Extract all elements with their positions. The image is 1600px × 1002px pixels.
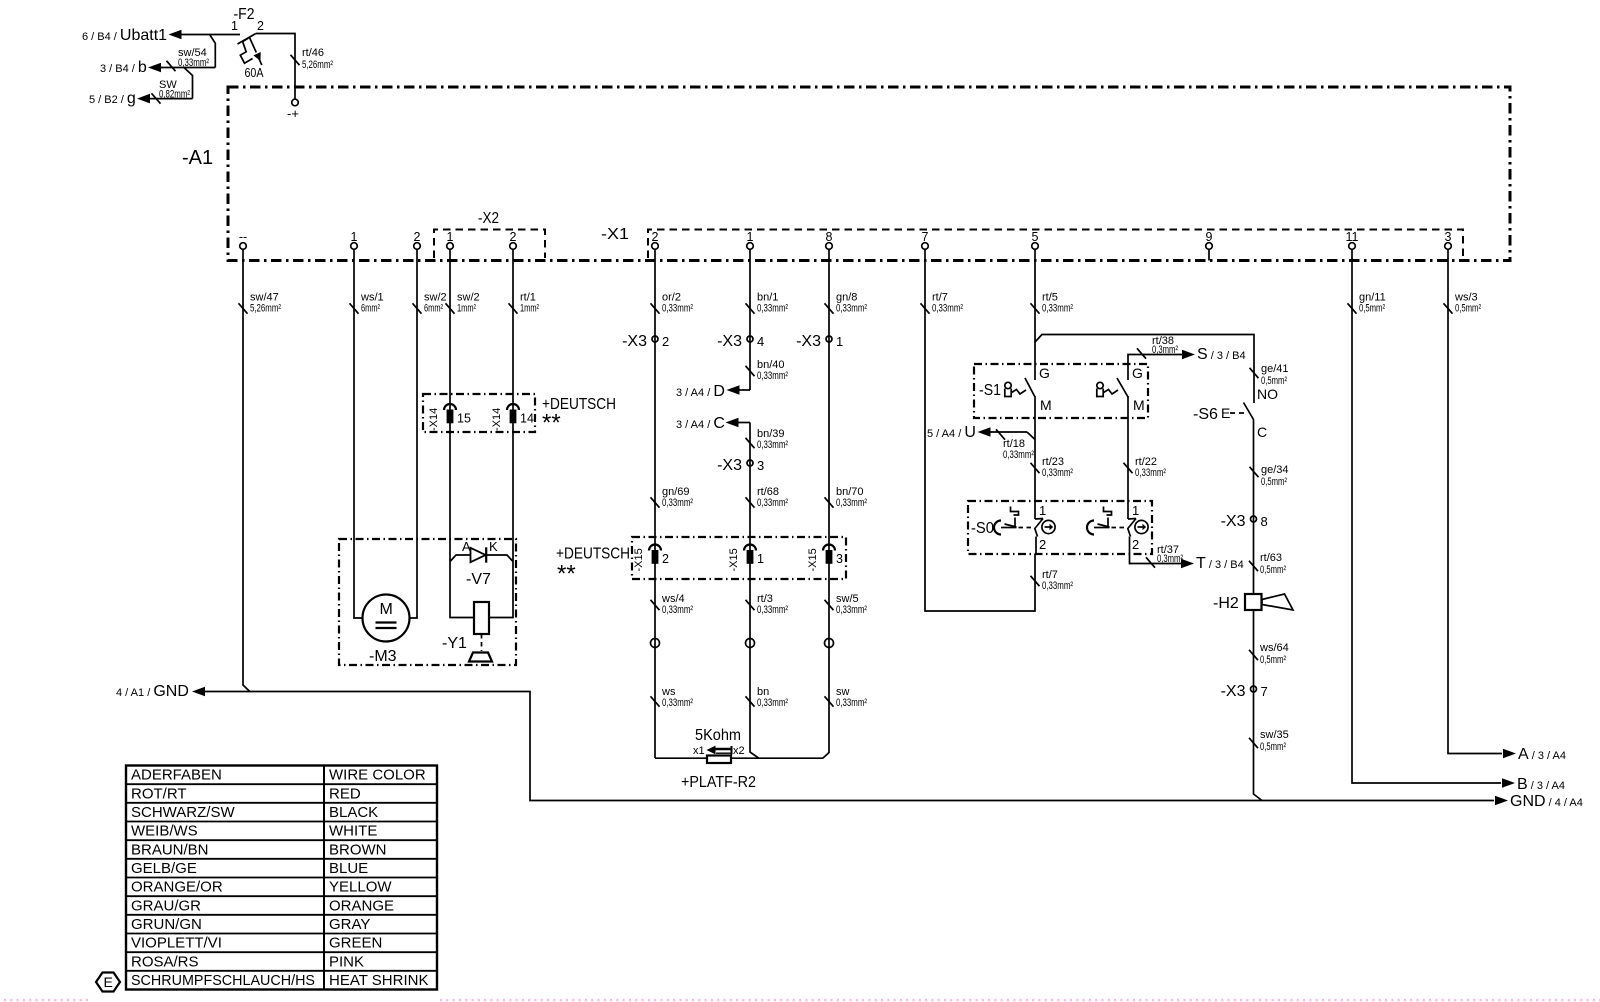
ECU label -A1: [182, 147, 213, 169]
svg-text:-V7: -V7: [466, 571, 491, 588]
svg-text:-Y1: -Y1: [442, 635, 467, 652]
connector pin 7: [922, 230, 929, 261]
connector pin 11: [1346, 230, 1359, 261]
svg-text:BLUE: BLUE: [329, 860, 368, 877]
svg-text:-A1: -A1: [182, 147, 213, 169]
node GND out-arrow 4/A1: [116, 683, 205, 700]
wire sw/2 X2:1 to Y1: [450, 261, 474, 618]
wire bn/1 X1:1 to D-arrow: [749, 261, 751, 391]
wire resistor left lead: [655, 757, 707, 759]
svg-text:E: E: [104, 974, 113, 990]
S0 sensor contact 2: [1087, 503, 1148, 552]
S0 sensor contact 1: [994, 503, 1055, 552]
svg-text:0,33mm²: 0,33mm²: [757, 303, 788, 315]
svg-text:11: 11: [1346, 230, 1359, 244]
svg-text:A: A: [462, 539, 471, 554]
svg-text:C: C: [1257, 424, 1267, 440]
wire label bn70: [825, 486, 868, 509]
svg-text:-H2: -H2: [1213, 595, 1239, 612]
svg-text:WHITE: WHITE: [329, 823, 377, 840]
splice on bn wire: [746, 639, 755, 648]
svg-text:4: 4: [757, 334, 764, 349]
svg-text:14: 14: [520, 412, 534, 426]
wire label ws3: [1444, 292, 1482, 315]
svg-text:0,5mm²: 0,5mm²: [1359, 303, 1385, 315]
resistor R2 5Kohm: [693, 727, 745, 763]
svg-text:K: K: [489, 539, 498, 554]
wire sw/2 pin2 to motor: [410, 261, 418, 619]
splice on sw wire: [825, 639, 834, 648]
svg-text:-X14: -X14: [428, 408, 440, 431]
svg-text:-M3: -M3: [369, 648, 397, 665]
svg-text:ADERFABEN: ADERFABEN: [131, 767, 222, 784]
terminal -+ on A1: [287, 99, 299, 121]
svg-text:5,26mm²: 5,26mm²: [250, 303, 281, 315]
svg-text:-X14: -X14: [491, 408, 503, 431]
connector -X3 pin 1: [796, 333, 843, 350]
wire label sw35: [1249, 729, 1289, 753]
svg-text:1mm²: 1mm²: [520, 303, 539, 315]
svg-text:VIOPLETT/VI: VIOPLETT/VI: [131, 935, 222, 952]
wire S0 contact2 pin2 to T-arrow: [1130, 537, 1182, 564]
node GND out-arrow 4/A4: [1495, 793, 1583, 810]
svg-text:0,33mm²: 0,33mm²: [757, 497, 788, 509]
svg-text:1mm²: 1mm²: [457, 303, 476, 315]
wire label rt37: [1146, 544, 1183, 568]
svg-text:**: **: [557, 561, 576, 588]
svg-text:GREEN: GREEN: [329, 935, 382, 952]
wire Ubatt1-to-b zigzag: [210, 35, 216, 68]
wire label sw2a: [413, 292, 447, 315]
wire label gn8: [825, 292, 868, 315]
wire label SW: [152, 79, 191, 104]
svg-text:1: 1: [836, 334, 843, 349]
connector pin 1: [447, 230, 454, 261]
box M3/Y1 dash-dot: [339, 539, 516, 665]
connector X1 dashed box: [601, 226, 1463, 258]
wire label rt18: [996, 429, 1034, 461]
location label +DEUTSCH (X15): [556, 546, 630, 588]
svg-text:+PLATF-R2: +PLATF-R2: [681, 774, 756, 791]
connector pin 2: [414, 230, 421, 261]
connector X15 dash-dot box: [632, 537, 846, 579]
svg-text:ge/41: ge/41: [1261, 363, 1289, 375]
solenoid Y1: [442, 602, 492, 662]
svg-text:60A: 60A: [245, 66, 265, 80]
wire S1 contact2 M down: [1127, 396, 1129, 519]
wire label rt7a: [921, 292, 964, 315]
svg-text:ROSA/RS: ROSA/RS: [131, 953, 199, 970]
svg-text:0,82mm²: 0,82mm²: [159, 89, 190, 101]
svg-text:7: 7: [1261, 684, 1268, 699]
svg-text:G: G: [1039, 365, 1050, 381]
wire label ge41: [1250, 363, 1289, 387]
wire rt/1 X2:2 to Y1: [489, 261, 513, 618]
svg-text:-X3: -X3: [1221, 683, 1246, 700]
svg-text:0,33mm²: 0,33mm²: [1042, 580, 1073, 592]
svg-text:7: 7: [922, 230, 929, 244]
svg-text:M: M: [380, 601, 393, 618]
horn H2: [1213, 594, 1293, 612]
connector -X3 pin 2: [622, 333, 669, 350]
svg-text:GRUN/GN: GRUN/GN: [131, 916, 202, 933]
wire S1 contact2 G up to S-arrow: [1128, 355, 1182, 381]
svg-text:0,5mm²: 0,5mm²: [1455, 303, 1481, 315]
svg-text:0,33mm²: 0,33mm²: [662, 604, 693, 616]
wire color legend table: [126, 766, 437, 990]
svg-text:sw/35: sw/35: [1260, 729, 1289, 741]
svg-text:YELLOW: YELLOW: [329, 879, 392, 896]
svg-text:-S0: -S0: [971, 520, 994, 537]
fuse F2 breaker symbol 60A: [238, 34, 265, 81]
svg-text:M: M: [1133, 397, 1145, 413]
svg-text:-X15: -X15: [728, 548, 740, 571]
connector pin 9: [1206, 230, 1213, 261]
svg-text:0,5mm²: 0,5mm²: [1260, 564, 1286, 576]
svg-text:-S6: -S6: [1193, 406, 1218, 423]
connector pin 8: [826, 230, 833, 261]
svg-text:0,33mm²: 0,33mm²: [836, 497, 867, 509]
location label +PLATF-R2: [681, 774, 756, 791]
svg-text:1: 1: [351, 230, 358, 244]
svg-text:SCHRUMPFSCHLAUCH/HS: SCHRUMPFSCHLAUCH/HS: [131, 972, 315, 989]
wire label ge34: [1250, 464, 1289, 488]
svg-text:2: 2: [1039, 537, 1046, 552]
connector X14 dash-dot box: [423, 394, 535, 432]
svg-text:BRAUN/BN: BRAUN/BN: [131, 841, 209, 858]
svg-text:0,3mm²: 0,3mm²: [1157, 553, 1183, 565]
node b out-arrow 3/B4: [100, 59, 215, 76]
svg-text:3: 3: [836, 552, 843, 566]
svg-text:ROT/RT: ROT/RT: [131, 785, 187, 802]
connector -X3 pin 8: [1221, 513, 1268, 530]
svg-text:6mm²: 6mm²: [361, 303, 380, 315]
svg-text:M: M: [1040, 397, 1052, 413]
svg-text:BLACK: BLACK: [329, 804, 378, 821]
splice on ws wire: [651, 639, 660, 648]
svg-text:-X3: -X3: [717, 457, 742, 474]
svg-text:WEIB/WS: WEIB/WS: [131, 823, 198, 840]
S1 key contact 1: [1005, 365, 1052, 413]
wire label rt7b: [1031, 569, 1074, 592]
svg-text:5: 5: [1032, 230, 1039, 244]
wire ws/3 X1:3 to A-arrow: [1448, 261, 1502, 754]
sheet border pink dotted: [4, 999, 1600, 1001]
wire label rt23: [1031, 456, 1074, 479]
svg-text:GELB/GE: GELB/GE: [131, 860, 197, 877]
fuse F2 label: [231, 6, 264, 33]
svg-text:-X3: -X3: [717, 333, 742, 350]
wire label rt5: [1031, 292, 1074, 315]
svg-text:0,33mm²: 0,33mm²: [1135, 467, 1166, 479]
wire rt/7 X1:7 loop to S0: [925, 261, 1035, 612]
svg-text:1: 1: [447, 230, 454, 244]
wire b-to-g zigzag: [184, 68, 193, 99]
wire fuse pin2 to -+ terminal: [256, 34, 295, 100]
svg-text:-X2: -X2: [478, 210, 499, 227]
svg-text:0,33mm²: 0,33mm²: [757, 697, 788, 709]
connector pin 5: [1032, 230, 1039, 261]
connector pin --: [239, 230, 247, 261]
svg-text:15: 15: [457, 412, 471, 426]
wire label ws4: [651, 593, 694, 616]
svg-text:0,33mm²: 0,33mm²: [932, 303, 963, 315]
svg-text:1: 1: [231, 19, 238, 33]
svg-text:3: 3: [1445, 230, 1452, 244]
connector -X3 pin 4: [717, 333, 764, 350]
svg-text:x1: x1: [693, 745, 705, 757]
wire label bn: [746, 686, 789, 709]
wire label rt68: [746, 486, 789, 509]
connector pin 1: [747, 230, 754, 261]
wire label bn1: [746, 292, 789, 315]
svg-text:2: 2: [662, 552, 669, 566]
wire label bn39: [746, 428, 789, 451]
svg-text:2: 2: [414, 230, 421, 244]
svg-text:2: 2: [1132, 537, 1139, 552]
svg-text:G: G: [1132, 365, 1143, 381]
svg-text:1: 1: [1039, 503, 1046, 518]
svg-text:0,33mm²: 0,33mm²: [1003, 449, 1034, 461]
S1 key contact 2: [1097, 365, 1145, 413]
svg-text:0,33mm²: 0,33mm²: [1042, 303, 1073, 315]
wire label gn11: [1348, 292, 1386, 315]
ECU box A1 border: [228, 87, 1510, 261]
node B out-arrow 3/A4: [1502, 776, 1565, 793]
svg-text:-X1: -X1: [601, 226, 629, 243]
wire label rt63: [1249, 552, 1286, 576]
svg-text:ORANGE: ORANGE: [329, 897, 394, 914]
svg-text:-X15: -X15: [633, 548, 645, 571]
svg-text:0,33mm²: 0,33mm²: [1042, 467, 1073, 479]
wire label sw47: [239, 292, 282, 315]
svg-text:RED: RED: [329, 785, 361, 802]
wire label ws64: [1249, 642, 1289, 666]
svg-text:**: **: [542, 410, 561, 437]
wire resistor right lead: [731, 757, 823, 759]
node D out-arrow 3/A4: [676, 383, 750, 400]
svg-text:NO: NO: [1257, 386, 1278, 402]
svg-text:1: 1: [747, 230, 754, 244]
wire bn/39 C-arrow down to resistor: [750, 423, 759, 759]
svg-text:ge/34: ge/34: [1261, 464, 1289, 476]
svg-text:0,5mm²: 0,5mm²: [1260, 741, 1286, 753]
wire node branch to S6 column: [1035, 335, 1254, 404]
node U out-arrow 5/A4: [927, 424, 1035, 441]
svg-text:rt/63: rt/63: [1260, 552, 1282, 564]
node Ubatt1 out-arrow 6/B4: [82, 27, 240, 44]
wire label sw5: [825, 593, 868, 616]
connector contact -X15:1: [728, 545, 764, 572]
svg-text:-+: -+: [287, 106, 299, 121]
wire label rt3: [746, 593, 789, 616]
wire label sw/54: [167, 47, 210, 71]
connector -X3 pin 7: [1221, 683, 1268, 700]
wire label or2: [651, 292, 694, 315]
svg-text:1: 1: [757, 552, 764, 566]
wire or/2 X1:2 down: [654, 261, 656, 759]
connector contact -X14:15: [428, 404, 471, 431]
svg-text:9: 9: [1206, 230, 1213, 244]
svg-text:0,5mm²: 0,5mm²: [1260, 654, 1286, 666]
node T out-arrow 3/B4: [1181, 555, 1244, 572]
svg-text:-X3: -X3: [1221, 513, 1246, 530]
svg-text:ws/64: ws/64: [1259, 642, 1289, 654]
svg-text:WIRE COLOR: WIRE COLOR: [329, 767, 426, 784]
svg-text:0,33mm²: 0,33mm²: [757, 439, 788, 451]
connector contact -X15:3: [807, 545, 843, 572]
motor M3: [363, 595, 410, 666]
svg-text:rt/46: rt/46: [302, 47, 324, 59]
svg-text:x2: x2: [733, 745, 745, 757]
wire GND run left: [205, 692, 1494, 801]
svg-text:1: 1: [1132, 503, 1139, 518]
wire sw/47 pin-- to GND run: [243, 261, 250, 692]
svg-text:5Kohm: 5Kohm: [695, 727, 741, 744]
wire ws/1 pin1 to motor: [354, 261, 363, 619]
svg-text:SCHWARZ/SW: SCHWARZ/SW: [131, 804, 235, 821]
svg-text:0,33mm²: 0,33mm²: [662, 697, 693, 709]
svg-text:PINK: PINK: [329, 953, 364, 970]
wire label gn69: [651, 486, 694, 509]
wire label rt1: [509, 292, 540, 315]
svg-text:0,33mm²: 0,33mm²: [836, 604, 867, 616]
wire label rt38: [1137, 335, 1178, 359]
wire label ws: [651, 686, 694, 709]
wire label rt22: [1124, 456, 1167, 479]
svg-text:8: 8: [1261, 514, 1268, 529]
svg-text:0,33mm²: 0,33mm²: [662, 303, 693, 315]
connector pin 2: [510, 230, 517, 261]
location label +DEUTSCH (X14): [542, 396, 616, 437]
svg-text:2: 2: [257, 19, 264, 33]
svg-text:0,33mm²: 0,33mm²: [757, 604, 788, 616]
node g out-arrow 5/B2: [89, 90, 193, 107]
svg-text:ORANGE/OR: ORANGE/OR: [131, 879, 223, 896]
wire rt/5 X1:5 to S1: [1034, 261, 1036, 381]
hexagon E marker: [96, 973, 120, 992]
svg-text:0,3mm²: 0,3mm²: [1152, 344, 1178, 356]
svg-text:6mm²: 6mm²: [424, 303, 443, 315]
diode V7: [450, 539, 513, 588]
svg-text:8: 8: [826, 230, 833, 244]
svg-text:0,33mm²: 0,33mm²: [178, 57, 209, 69]
svg-text:0,5mm²: 0,5mm²: [1261, 476, 1287, 488]
svg-text:GRAY: GRAY: [329, 916, 370, 933]
node A out-arrow 3/A4: [1503, 746, 1566, 763]
connector pin 2: [652, 230, 659, 261]
wire label rt/46: [291, 47, 334, 71]
svg-text:0,33mm²: 0,33mm²: [836, 303, 867, 315]
node C in-arrow 3/A4: [676, 415, 750, 432]
wire label ws1: [350, 292, 384, 315]
svg-text:HEAT SHRINK: HEAT SHRINK: [329, 972, 428, 989]
svg-text:2: 2: [510, 230, 517, 244]
wire gn/11 X1:11 to B-arrow: [1352, 261, 1501, 784]
wire S6 C down to GND run: [1254, 420, 1263, 801]
connector pin 1: [351, 230, 358, 261]
svg-text:0,33mm²: 0,33mm²: [836, 697, 867, 709]
switch box S1 dash-dot: [974, 364, 1148, 418]
svg-text:0,33mm²: 0,33mm²: [662, 497, 693, 509]
node S out-arrow 3/B4: [1182, 346, 1246, 363]
connector X2 dashed box: [434, 210, 545, 258]
wire label sw: [825, 686, 868, 709]
svg-text:-X3: -X3: [622, 333, 647, 350]
wire S1 contact1 M down: [1034, 396, 1036, 519]
svg-text:E: E: [1221, 405, 1230, 421]
svg-text:5,26mm²: 5,26mm²: [302, 59, 333, 71]
svg-text:GRAU/GR: GRAU/GR: [131, 897, 201, 914]
svg-text:-X15: -X15: [807, 548, 819, 571]
svg-text:2: 2: [662, 334, 669, 349]
connector contact -X14:14: [491, 404, 534, 431]
svg-text:3: 3: [757, 458, 764, 473]
switch S6 changeover: [1193, 386, 1278, 440]
wire gn/8 X1:8 down: [823, 261, 829, 759]
wire label bn40: [746, 359, 789, 382]
svg-text:-S1: -S1: [979, 382, 1001, 399]
svg-text:-X3: -X3: [796, 333, 821, 350]
wire label sw2b: [446, 292, 480, 315]
wire S0 contact1 pin2 down (joins rt/7 loop): [1035, 537, 1037, 555]
svg-text:BROWN: BROWN: [329, 841, 387, 858]
svg-text:0,33mm²: 0,33mm²: [757, 370, 788, 382]
svg-text:--: --: [239, 230, 247, 244]
connector contact -X15:2: [633, 545, 669, 572]
switch box S0 dash-dot: [968, 501, 1152, 554]
svg-text:2: 2: [652, 230, 659, 244]
connector -X3 pin 3: [717, 457, 764, 474]
connector pin 3: [1445, 230, 1452, 261]
